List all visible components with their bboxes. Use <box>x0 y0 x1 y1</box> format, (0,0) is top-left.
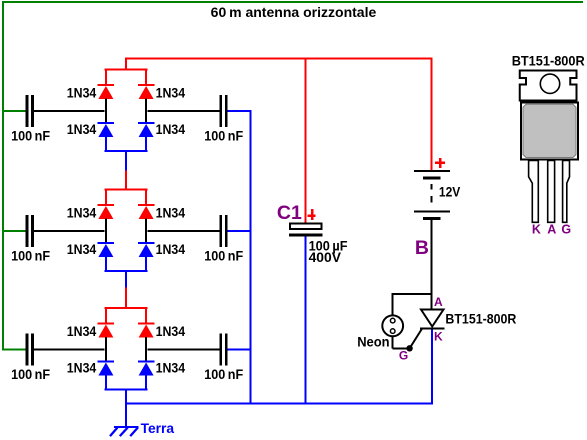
diode 1N34 bridge3 upper-left (red) <box>98 323 115 338</box>
wire: row1 bridge to right cap (black) <box>148 110 220 112</box>
bridge1: right mid vertical (black) <box>145 99 147 124</box>
svg-text:100 nF: 100 nF <box>11 128 50 144</box>
svg-text:1N34: 1N34 <box>67 204 97 220</box>
bridge2: right mid vertical (black) <box>145 219 147 244</box>
svg-text:Terra: Terra <box>141 420 175 436</box>
TO-220 body <box>521 102 578 159</box>
capacitor 100 nF row2 left (plates) <box>26 215 34 247</box>
svg-text:1N34: 1N34 <box>156 241 186 257</box>
wire: battery - down to thyristor anode (black) <box>431 220 433 309</box>
antenna wire: top horizontal (green) <box>2 1 583 3</box>
bridge3: left mid vertical (black) <box>105 337 107 362</box>
bridge1: right blue drop <box>145 137 147 152</box>
svg-text:C1: C1 <box>277 202 302 224</box>
thyristor gate lead (diagonal) <box>410 329 422 348</box>
wire link bridge2-bridge3 upper half (blue) <box>125 270 127 288</box>
battery plate long (top cell +) <box>414 170 450 172</box>
svg-text:K: K <box>434 330 443 344</box>
TO-220 leg K (pin 1) <box>529 161 539 223</box>
wire link bridge2-bridge3 lower half (red) <box>125 288 127 309</box>
bridge2: right blue drop <box>145 257 147 272</box>
wire: row3 right cap to blue bus <box>228 348 251 350</box>
junction dot at gate G <box>406 345 412 351</box>
svg-text:B: B <box>415 237 429 259</box>
battery plate short (bottom cell -) <box>423 217 441 220</box>
svg-text:1N34: 1N34 <box>67 241 97 257</box>
svg-text:100 nF: 100 nF <box>204 248 243 264</box>
svg-text:BT151-800R: BT151-800R <box>445 311 516 327</box>
svg-text:1N34: 1N34 <box>156 204 186 220</box>
neon lamp inner electrodes <box>390 318 395 333</box>
svg-text:1N34: 1N34 <box>67 121 97 137</box>
svg-text:1N34: 1N34 <box>156 84 186 100</box>
svg-text:1N34: 1N34 <box>156 121 186 137</box>
svg-text:100 nF: 100 nF <box>11 366 50 382</box>
svg-text:G: G <box>399 348 408 362</box>
svg-text:1N34: 1N34 <box>156 360 186 376</box>
svg-text:BT151-800R: BT151-800R <box>512 52 585 68</box>
diode 1N34 bridge3 upper-right (red) <box>138 323 155 338</box>
wire: neon to gate (black) <box>393 347 410 349</box>
diode 1N34 bridge1 upper-left (red) <box>98 84 115 99</box>
thyristor U1 BT151-800R triangle (anode-cathode) <box>421 310 444 327</box>
svg-text:400V: 400V <box>309 249 342 265</box>
bridge1: bottom rail (blue) <box>105 150 148 152</box>
wire: row3 left cap to bridge (black) <box>34 348 105 350</box>
neon lamp NE bulb <box>382 315 403 336</box>
wire: bridge1 centre feed from bus (red) <box>125 58 127 71</box>
capacitor C1 top plate (hollow) <box>290 224 322 230</box>
wire: bus down to C1 (red) <box>305 58 307 223</box>
capacitor 100 nF row3 left (plates) <box>26 333 34 365</box>
svg-text:A: A <box>434 295 443 309</box>
capacitor 100 nF row2 right (plates) <box>220 215 228 247</box>
diode 1N34 bridge1 lower-left (blue) <box>98 122 115 137</box>
wire: bridge3 centre to bottom bus and earth (blue) <box>125 389 127 428</box>
wire: top red bus (rectified + rail) <box>125 58 433 60</box>
antenna stub to C row2 (green) <box>2 230 26 232</box>
bridge3: left blue drop <box>105 375 107 390</box>
bridge3: right blue drop <box>145 375 147 390</box>
wire: row2 left cap to bridge (black) <box>34 230 105 232</box>
svg-text:K: K <box>532 223 541 237</box>
TO-220 mounting hole <box>540 74 559 93</box>
capacitor 100 nF row1 left (plates) <box>26 95 34 127</box>
bridge3: top rail (red) <box>105 307 148 309</box>
polarity + of battery (red) <box>435 158 445 168</box>
wire: bus down to battery + (red) <box>431 58 433 170</box>
bridge3: right red riser <box>145 307 147 324</box>
diode 1N34 bridge1 upper-right (red) <box>138 84 155 99</box>
battery plate long (bottom cell +) <box>414 210 450 212</box>
wire link bridge1-bridge2 lower half (red) <box>125 171 127 191</box>
svg-text:G: G <box>561 223 571 237</box>
ground symbol bar (earth) <box>114 426 139 428</box>
diode 1N34 bridge2 upper-left (red) <box>98 204 115 219</box>
wire: branch to neon (black) <box>392 293 433 295</box>
wire: row2 bridge to right cap (black) <box>148 230 220 232</box>
wire: bottom blue bus (negative rail) <box>125 403 433 405</box>
battery plate short (top cell -) <box>423 177 441 180</box>
capacitor 100 nF row3 right (plates) <box>220 333 228 365</box>
bridge1: top rail (red) <box>105 69 148 71</box>
svg-text:Neon: Neon <box>357 334 389 350</box>
capacitor C1 bottom plate <box>289 234 323 237</box>
wire: neon bottom lead <box>392 337 394 348</box>
antenna wire: left vertical (green) <box>2 1 4 350</box>
svg-text:12V: 12V <box>439 183 461 199</box>
wire: row1 right cap to blue bus <box>228 110 251 112</box>
diode 1N34 bridge1 lower-right (blue) <box>138 122 155 137</box>
bridge1: right red riser <box>145 69 147 86</box>
bridge3: bottom rail (blue) <box>105 389 148 391</box>
svg-text:60 m antenna orizzontale: 60 m antenna orizzontale <box>211 4 377 20</box>
diode 1N34 bridge2 lower-right (blue) <box>138 242 155 257</box>
svg-text:100 nF: 100 nF <box>11 248 50 264</box>
wire: right vertical blue bus <box>250 110 252 405</box>
wire: thyristor cathode to bottom bus (blue) <box>431 330 433 403</box>
wire: neon top lead <box>392 295 394 315</box>
thyristor cathode bar <box>420 328 445 330</box>
svg-text:100 nF: 100 nF <box>204 366 243 382</box>
wire: row2 right cap to blue bus <box>228 230 251 232</box>
wire link bridge1-bridge2 upper half (blue) <box>125 151 127 171</box>
battery middle dashed link <box>431 184 433 202</box>
svg-text:1N34: 1N34 <box>67 84 97 100</box>
capacitor 100 nF row1 right (plates) <box>220 95 228 127</box>
svg-text:1N34: 1N34 <box>67 360 97 376</box>
polarity + of C1 (red) <box>308 209 316 220</box>
bridge1: left mid vertical (black) <box>105 99 107 124</box>
diode 1N34 bridge3 lower-left (blue) <box>98 361 115 376</box>
diode 1N34 bridge2 upper-right (red) <box>138 204 155 219</box>
bridge3: right mid vertical (black) <box>145 337 147 362</box>
svg-text:1N34: 1N34 <box>156 323 186 339</box>
svg-text:100 nF: 100 nF <box>204 128 243 144</box>
bridge2: left blue drop <box>105 257 107 272</box>
bridge2: top rail (red) <box>105 189 148 191</box>
diode 1N34 bridge3 lower-right (blue) <box>138 361 155 376</box>
wire: C1 to bottom bus (blue) <box>305 237 307 405</box>
wire: row1 left cap to bridge (black) <box>34 110 105 112</box>
ground symbol hatches <box>110 428 138 437</box>
bridge2: left mid vertical (black) <box>105 219 107 244</box>
bridge1: left blue drop <box>105 137 107 152</box>
bridge2: right red riser <box>145 189 147 206</box>
svg-text:A: A <box>547 223 556 237</box>
TO-220 tab with notches <box>520 71 577 101</box>
antenna stub to C row1 (green) <box>2 110 26 112</box>
bridge2: bottom rail (blue) <box>105 270 148 272</box>
svg-text:1N34: 1N34 <box>67 323 97 339</box>
bridge1: left red riser <box>105 69 107 86</box>
diode 1N34 bridge2 lower-left (blue) <box>98 242 115 257</box>
bridge3: left red riser <box>105 307 107 324</box>
bridge2: left red riser <box>105 189 107 206</box>
TO-220 leg G (pin 3) <box>563 161 570 223</box>
antenna stub to C row3 (green) <box>2 348 26 350</box>
TO-220 leg A (pin 2) <box>548 161 555 223</box>
wire: row3 bridge to right cap (black) <box>148 348 220 350</box>
